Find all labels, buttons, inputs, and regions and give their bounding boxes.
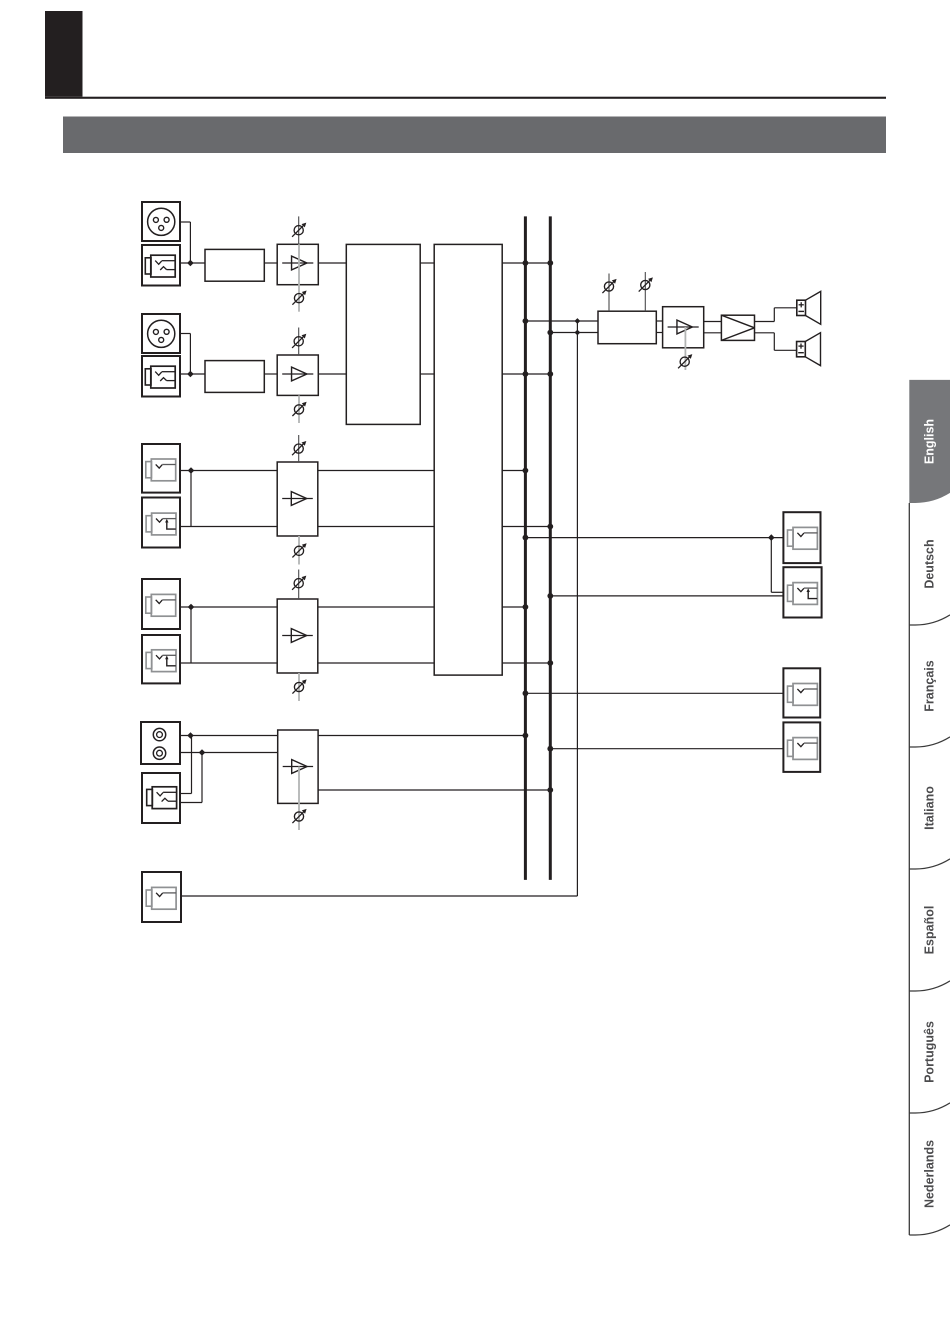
wire ch2 XLR to junction [180,334,190,375]
master knob R stem [644,272,646,311]
node busL y321 [523,318,529,324]
wire ch1 mixer2 to buses [502,262,550,264]
wire aux mini-R link [180,753,202,803]
power amp block [663,307,704,348]
node busR y790 [547,787,553,793]
amplifier symbol CH3/4 [282,492,313,506]
wire ch2 amp to mixer1 [318,373,346,375]
level stem CH3/4 [298,536,300,565]
wire ch1 amp to mixer1 [318,262,346,264]
wire ch2 mixer2 to buses [502,373,550,375]
wire ch2 preamp to amp [264,373,277,375]
node busL y537.6 [523,535,529,541]
tab label Italiano [923,786,937,830]
node ch1 input junction [187,260,194,267]
line out jack 3 [783,668,820,717]
node control tap R [575,330,581,336]
mini jack connector AUX [142,773,180,823]
wire ch5 normal link [190,607,192,663]
master knob L stem [608,274,610,312]
node busR y526.5 [547,524,553,530]
limiter block [721,315,754,340]
header black corner block [45,11,83,97]
header rule line [45,97,886,99]
level knob CH1 [292,291,306,305]
wire aux mini-L link [180,736,192,794]
wire ch5R amp to mixer2 [318,662,434,664]
jack connector CH4 R [142,498,180,548]
mixer block 1 [346,244,420,424]
level knob CH3/4 [292,543,306,557]
power amp knob stem [684,327,686,370]
preamp block CH2 [205,361,264,393]
wire ch4 mixer2 to busR [502,526,550,528]
wire ch5 jackR to amp [180,662,277,664]
gain knob CH3/4 [292,435,306,462]
gain knob CH1 [292,216,306,244]
wire ch4 jackR to amp [180,526,277,528]
jack connector CH5 R [142,635,180,683]
amp block AUX [278,730,318,803]
node ch3 junction [188,467,195,474]
level knob AUX [292,809,306,823]
phones jack [783,567,821,617]
line out jack 4 [783,722,820,772]
level stem AUX [298,767,300,831]
wire aux RCA-L to amp [180,735,278,737]
node aux L junction [187,732,194,739]
jack connector CH2 [142,356,180,397]
wire poweramp to limiter R [704,332,722,334]
node ch5 junction [188,604,195,611]
wire master to poweramp L [656,320,662,322]
wire aux amp L to busL [318,735,525,737]
jack connector CH3 L [142,444,180,493]
level stem CH5 [298,673,300,701]
XLR connector CH1 [142,202,180,241]
power amp knob [678,354,692,368]
tab label Español [923,906,937,955]
wire busL to master [525,320,598,322]
wire limiter to speaker1 [755,308,797,322]
amp block CH3/4 [277,462,318,536]
preamp block CH1 [205,249,264,281]
amp block CH1 [277,244,318,284]
amplifier symbol CH5 [282,629,313,643]
jack connector CH1 [142,245,180,286]
svg-text:Español: Español [923,906,937,955]
tab label Português [923,1021,937,1083]
node busR y374 [547,371,553,377]
wire lineout link down [771,538,783,593]
section title gray bar [63,117,886,154]
svg-text:English: English [923,419,937,464]
node busR y332.5 [547,330,553,336]
node busR y748.7 [547,746,553,752]
node busR y595.9 [547,593,553,599]
node lineout junction [768,534,775,541]
wire busL to lineout1 [525,537,783,539]
node busL y607 [523,604,529,610]
master knob R [639,277,653,291]
bus R [549,216,552,880]
amp block CH2 [277,355,318,395]
node busL y693.3 [523,690,529,696]
wire ch5L amp to mixer2 [318,606,434,608]
master knob L [602,279,616,293]
tab label Nederlands [923,1140,937,1208]
tab English [909,380,950,503]
node busL y470.5 [523,468,529,474]
node busR y263 [547,260,553,266]
wire aux RCA-R to amp [180,752,278,754]
gain knob CH2 [292,328,306,356]
tab Italiano arc [909,859,950,869]
wire ch5R mixer2 to busR [502,662,550,664]
wire ch5L mixer2 to busL [502,606,525,608]
wire limiter to speaker2 [755,333,797,351]
tab Français arc [909,737,950,747]
svg-text:Deutsch: Deutsch [923,539,937,588]
tab Español arc [909,981,950,991]
wire ch1 mixer1 to mixer2 [420,262,434,264]
line out jack 1 [783,512,820,563]
tab strip left edge [908,503,910,1235]
wire busR to master [550,332,598,334]
wire poweramp to limiter L [704,321,722,323]
tab Português arc [909,1103,950,1113]
level knob CH2 [292,402,306,416]
wire ch1 XLR to junction [180,222,190,263]
amplifier symbol power amp [668,320,699,334]
wire ch2 jack to preamp [180,373,205,375]
RCA connector AUX [141,722,180,764]
level knob CH5 [292,679,306,693]
wire busL to lineout3 [525,692,783,694]
svg-text:Português: Português [923,1021,937,1083]
jack connector CH5 L [142,579,180,629]
XLR connector CH2 [142,314,180,353]
tab label English [923,419,937,464]
tab Nederlands arc [909,1225,950,1235]
wire ch4 amp to mixer2 [318,526,434,528]
wire ch3 mixer2 to busL [502,470,525,472]
svg-text:Italiano: Italiano [923,786,937,830]
wire ch1 jack to preamp [180,262,205,264]
node busL y263 [523,260,529,266]
tab label Deutsch [923,539,937,588]
wire ch1 preamp to amp [264,262,277,264]
wire busR to lineout4 [550,748,783,750]
amplifier symbol AUX [283,760,313,774]
jack connector FOOTSW [142,872,181,922]
wire ch3 amp to mixer2 [318,470,434,472]
tab Deutsch arc [909,615,950,625]
wire ch5 jackL to amp [180,606,277,608]
node busL y735.5 [523,733,529,739]
svg-text:Nederlands: Nederlands [923,1140,937,1208]
level stem CH1 [298,244,300,311]
amplifier symbol CH1 [282,256,313,270]
node busR y663 [547,660,553,666]
wire footswitch to master [181,321,577,896]
level stem CH2 [298,395,300,423]
node busL y374 [523,371,529,377]
amplifier symbol CH2 [282,367,313,381]
node ch2 input junction [187,371,194,378]
bus L [524,216,527,880]
gain knob CH5 [292,570,306,600]
amp block CH5 [277,599,318,673]
node aux R junction [199,749,206,756]
speaker 2 [797,333,821,366]
svg-text:Français: Français [923,660,937,711]
master level block [598,311,656,344]
wire master to poweramp R [656,332,662,334]
wire busR to lineout2 [550,595,783,597]
wire ch3 jackL to amp [180,470,277,472]
wire aux amp R to busR [318,789,550,791]
wire ch2 mixer1 to mixer2 [420,373,434,375]
node control tap L [575,318,581,324]
mixer block 2 [434,244,502,675]
speaker 1 [797,291,821,324]
wire ch4 normal link [190,471,192,527]
tab label Français [923,660,937,711]
